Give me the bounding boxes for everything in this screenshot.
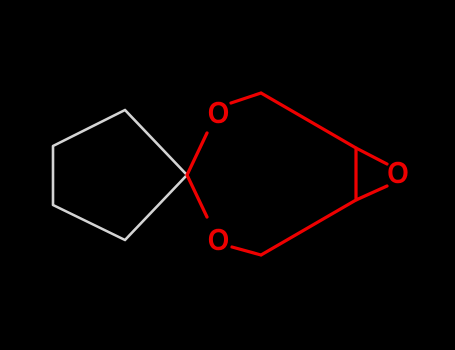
bond epoxide C top to O (356, 148, 387, 164)
red bonds (187, 93, 387, 255)
bond CH2 top to epoxide C top (261, 93, 356, 148)
bond spiro to O top (187, 133, 207, 175)
svg-text:O: O (208, 222, 230, 257)
bond CH2 bottom to epoxide C bottom (261, 200, 356, 255)
svg-text:O: O (387, 155, 409, 190)
bond O top to CH2 top (231, 93, 261, 103)
bond O bottom to CH2 bottom (232, 247, 261, 255)
bond spiro to O bottom (187, 175, 207, 217)
fused C-C bond (354, 148, 357, 200)
bond epoxide C bottom to O (356, 186, 387, 200)
svg-text:O: O (208, 95, 230, 130)
cyclopentane ring (53, 110, 187, 240)
